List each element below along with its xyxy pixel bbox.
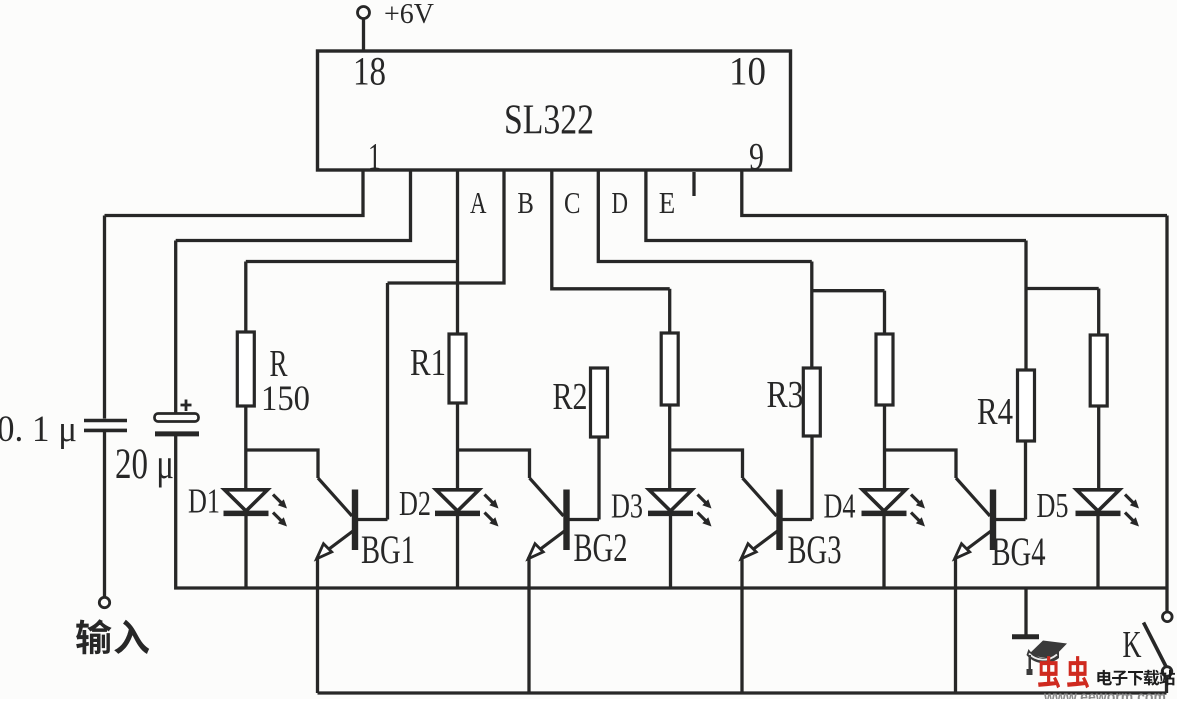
svg-text:D3: D3 — [611, 487, 643, 526]
svg-text:20 μ: 20 μ — [115, 441, 174, 488]
svg-text:K: K — [1123, 624, 1142, 666]
svg-text:E: E — [659, 185, 676, 220]
svg-text:18: 18 — [353, 49, 386, 94]
svg-text:BG2: BG2 — [574, 525, 628, 570]
svg-text:10: 10 — [729, 49, 766, 94]
svg-text:9: 9 — [749, 136, 764, 178]
svg-text:A: A — [470, 185, 487, 220]
svg-text:+6V: +6V — [384, 0, 434, 30]
svg-text:R3: R3 — [767, 374, 804, 416]
svg-text:R1: R1 — [410, 342, 446, 384]
svg-text:BG4: BG4 — [992, 529, 1046, 574]
svg-text:1: 1 — [368, 136, 381, 178]
svg-text:BG1: BG1 — [361, 527, 415, 572]
svg-text:C: C — [564, 185, 581, 220]
svg-text:R4: R4 — [977, 391, 1013, 433]
svg-text:BG3: BG3 — [788, 527, 842, 572]
svg-text:D4: D4 — [824, 487, 856, 526]
svg-text:D: D — [612, 185, 629, 220]
svg-text:D5: D5 — [1037, 486, 1069, 525]
svg-text:150: 150 — [261, 378, 310, 418]
svg-text:D1: D1 — [188, 482, 220, 521]
svg-text:www.eeworm.com: www.eeworm.com — [1043, 689, 1166, 700]
svg-text:R2: R2 — [553, 376, 588, 418]
svg-text:D2: D2 — [399, 484, 431, 523]
svg-text:B: B — [517, 185, 534, 220]
svg-text:SL322: SL322 — [504, 97, 594, 144]
svg-text:0. 1 μ: 0. 1 μ — [0, 409, 77, 450]
